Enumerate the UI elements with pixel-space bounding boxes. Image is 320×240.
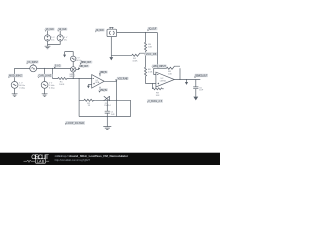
value label C5: [199, 87, 204, 91]
wire V5 to mixer: [72, 62, 74, 67]
value label V1 5V DC: [51, 37, 55, 42]
svg-text:0 deg: 0 deg: [49, 87, 55, 89]
node junction H: [145, 55, 146, 56]
wire U2 output: [174, 79, 200, 81]
net flag SIG on wire: [54, 64, 61, 69]
net flag V4: [8, 74, 23, 78]
resistor R4: [111, 53, 145, 56]
footer bar: [0, 153, 220, 165]
value label MIX1: [70, 74, 76, 78]
wire C1 ground stem: [106, 117, 108, 127]
wire U1 output: [104, 81, 116, 100]
mixer MIX1: [71, 67, 76, 72]
svg-text:SQ_OUT: SQ_OUT: [148, 28, 157, 31]
value label C1: [111, 112, 116, 116]
wire V4 bottom: [14, 88, 16, 93]
wire U1 vdd stub: [99, 74, 101, 76]
node junction G: [145, 32, 146, 33]
svg-text:0 deg: 0 deg: [19, 87, 25, 89]
wire V1 bottom: [47, 41, 49, 44]
wire loop bottom: [79, 116, 131, 118]
net flag LPF2_INPUT: [152, 65, 167, 69]
net flag VSS: [99, 88, 108, 92]
wire V6 bottom: [44, 88, 46, 93]
value label V2 5V DC: [64, 37, 68, 42]
net flag DEMOD_OUT: [194, 74, 208, 78]
wire V5 top: [65, 52, 74, 57]
value label D1: [104, 103, 111, 107]
wire U1 plus stub: [88, 83, 91, 85]
ground arrow A4: [193, 97, 198, 101]
svg-text:100K: 100K: [59, 84, 65, 86]
svg-text:1N914: 1N914: [104, 105, 111, 107]
resistor R5: [144, 42, 146, 51]
value label R8: [168, 71, 172, 75]
net flag SQ_OUT: [147, 27, 157, 31]
resistor R9: [152, 88, 163, 90]
svg-text:100K: 100K: [132, 60, 138, 62]
svg-text:V2_CLK: V2_CLK: [59, 28, 67, 31]
value label R9: [156, 93, 160, 97]
ground G3: [42, 94, 48, 97]
wire U1 vss stub: [99, 87, 101, 89]
node junction E: [116, 100, 117, 101]
capacitor C5: [193, 80, 198, 97]
node junction A: [44, 68, 45, 69]
net flag VCO_IN: [115, 77, 128, 81]
net flag V2: [57, 28, 67, 32]
capacitor C1: [105, 100, 110, 116]
ground G4: [103, 127, 111, 130]
sine source V5: [71, 56, 76, 61]
node junction B: [52, 68, 53, 69]
resistor R2: [79, 99, 95, 101]
wire V1 top stub: [47, 31, 49, 35]
value label R6: [148, 69, 153, 74]
svg-text:OPA: OPA: [95, 81, 100, 84]
svg-text:DC: DC: [51, 40, 55, 42]
node junction D: [79, 78, 80, 79]
resistor R8: [154, 66, 180, 69]
node junction F: [107, 116, 108, 117]
svg-text:BFSK_OUT: BFSK_OUT: [81, 61, 92, 64]
svg-text:V1_CLK: V1_CLK: [46, 28, 54, 31]
svg-text:1UF: 1UF: [111, 114, 116, 116]
vco box X1: [107, 27, 117, 36]
sine source V4: [11, 82, 18, 89]
diode D1: [104, 96, 110, 101]
svg-text:10K: 10K: [156, 95, 160, 97]
svg-text:MULT: MULT: [70, 76, 76, 78]
wire main net right: [37, 67, 71, 69]
value label V4: [19, 82, 25, 89]
logo wire and LAB box: [24, 159, 50, 164]
wire drop to R1: [52, 68, 54, 78]
footer title text: [55, 154, 129, 158]
value label R1: [59, 82, 65, 86]
svg-text:DEMOD_OUT: DEMOD_OUT: [195, 75, 208, 78]
sine source V3: [30, 64, 37, 72]
wire U2 minus stub: [154, 68, 156, 74]
net flag MIX_OUT: [78, 65, 89, 70]
op-amp U2: [156, 72, 174, 87]
svg-text:10K: 10K: [168, 74, 172, 76]
ground arrow U1 plus: [87, 84, 90, 88]
svg-text:http://circuitlab.com/cmg7g527: http://circuitlab.com/cmg7g527: [55, 158, 91, 162]
wire loop left vertical: [78, 79, 80, 117]
svg-text:LAB: LAB: [37, 159, 45, 163]
value label R4: [132, 58, 138, 62]
svg-text:VCO_TUNE: VCO_TUNE: [118, 77, 129, 80]
wire X1 output: [117, 32, 158, 34]
ground arrow A2: [109, 55, 113, 60]
svg-text:1UF: 1UF: [199, 90, 204, 92]
net flag VCO_FB: [145, 52, 158, 56]
wire mixer right stub: [76, 68, 79, 70]
ground G1: [45, 44, 51, 48]
voltage source V1: [44, 35, 50, 41]
net flag LOOP_FILTER: [65, 121, 85, 125]
value label R2: [87, 103, 91, 107]
wire loop top: [95, 99, 131, 101]
wire main net left: [15, 68, 30, 81]
svg-text:V_BIAS_2.5: V_BIAS_2.5: [148, 100, 163, 103]
svg-text:VSS_5V: VSS_5V: [100, 89, 108, 92]
wire X1 bottom stem: [110, 37, 112, 56]
resistor R1: [53, 77, 67, 79]
svg-text:DC: DC: [64, 40, 68, 42]
value label V6: [49, 82, 55, 89]
wire mixer bottom: [72, 72, 74, 78]
footer url text: [55, 158, 91, 162]
wire V2 top stub: [59, 31, 61, 35]
ground arrow A3: [185, 80, 188, 85]
svg-text:SIG: SIG: [55, 65, 61, 68]
value label R5: [148, 44, 152, 49]
svg-text:LPF2_INPUT: LPF2_INPUT: [153, 65, 167, 68]
svg-text:X1_VCO: X1_VCO: [96, 29, 104, 32]
wire V2b drop: [44, 68, 46, 81]
ground G2: [12, 94, 18, 97]
svg-text:1.0K: 1.0K: [148, 72, 153, 74]
voltage source V2: [57, 35, 63, 41]
net flag BFSK_OUT: [80, 61, 93, 65]
svg-text:VCO_FB: VCO_FB: [146, 53, 157, 56]
wire bus top: [145, 33, 147, 43]
sine source V6: [41, 82, 48, 89]
svg-text:LM741: LM741: [160, 81, 167, 83]
net flag V1: [45, 28, 55, 32]
svg-text:LOOP_FILTER: LOOP_FILTER: [66, 122, 84, 125]
wire bus to U2 plus: [146, 76, 156, 83]
svg-text:10K: 10K: [148, 47, 152, 49]
svg-text:MIX_OUT: MIX_OUT: [80, 65, 89, 68]
wire vertical B: [157, 33, 159, 69]
node junction C: [73, 78, 74, 79]
resistor R6: [144, 67, 146, 76]
node junction I: [179, 79, 180, 80]
svg-text:MOD_60HZ: MOD_60HZ: [9, 75, 22, 78]
net flag VBIAS: [147, 99, 163, 103]
svg-text:V3_60HZ: V3_60HZ: [27, 61, 38, 64]
net flag X1: [95, 28, 105, 32]
net flag V6: [38, 74, 53, 78]
svg-text:CAR_1KHZ: CAR_1KHZ: [39, 75, 52, 78]
wire loop right vertical: [117, 100, 131, 116]
wire R1 to U1: [67, 78, 92, 80]
op-amp U1: [92, 75, 105, 88]
wire feedback right: [179, 68, 181, 79]
node junction J: [186, 79, 187, 80]
wire R9 stub: [151, 83, 153, 88]
wire V2 bottom: [48, 41, 61, 44]
logo CIRCUIT: [31, 155, 49, 161]
ground arrow A1: [63, 52, 66, 58]
value label V5: [76, 58, 82, 63]
svg-text:VDD_5V: VDD_5V: [100, 71, 107, 74]
net flag V3: [26, 60, 38, 64]
wire bus mid: [145, 51, 147, 67]
net flag VDD: [99, 71, 108, 75]
